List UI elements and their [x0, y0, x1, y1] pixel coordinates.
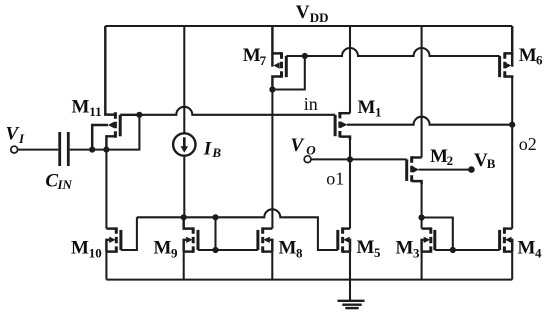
- wire M11 gate riser down to input node: [106, 115, 139, 150]
- svg-text:M: M: [154, 238, 172, 259]
- transistor M4 (NMOS): [500, 227, 513, 252]
- svg-text:O: O: [306, 143, 316, 158]
- wire M9 gate riser: [214, 217, 216, 250]
- wire M3 source to rail: [421, 252, 423, 280]
- svg-text:11: 11: [89, 104, 101, 119]
- wire bias mirror net with hop over M7-M8 line: [137, 209, 338, 250]
- svg-text:IN: IN: [57, 177, 73, 192]
- svg-text:M: M: [396, 238, 414, 259]
- transistor M3 (NMOS, diode-connected): [422, 227, 435, 252]
- svg-text:I: I: [18, 131, 25, 146]
- svg-text:4: 4: [535, 245, 542, 260]
- wire VDD riser to M1 drain: [349, 26, 351, 113]
- transistor M6 (PMOS): [500, 26, 513, 79]
- node dot M7 drain: [269, 86, 275, 92]
- transistor M10 (NMOS current sink): [106, 227, 121, 252]
- svg-text:M: M: [518, 238, 536, 259]
- wire M3 gate to M4 gate: [435, 249, 500, 251]
- wire M10 source to rail: [105, 252, 107, 280]
- ground: [338, 280, 365, 309]
- svg-text:10: 10: [89, 245, 102, 260]
- node dot M9 riser bottom: [212, 247, 218, 253]
- wire input node: terminal to capacitor: [18, 149, 59, 151]
- svg-text:o1: o1: [326, 169, 344, 189]
- wire VDD riser to IB: [183, 26, 185, 134]
- wire M2 source down to M3 drain: [421, 183, 423, 229]
- wire capacitor to M11 source node: [70, 149, 107, 151]
- svg-text:M: M: [72, 96, 90, 117]
- node dot M11 bulk at input: [89, 147, 95, 153]
- terminal VB (solid): [468, 166, 475, 173]
- wire M10 gate riser: [121, 217, 137, 250]
- svg-text:7: 7: [260, 53, 267, 68]
- svg-text:2: 2: [447, 153, 454, 168]
- svg-text:M: M: [430, 146, 448, 167]
- svg-text:B: B: [487, 156, 496, 171]
- wire M6 drain / o2 / M4 drain column: [511, 78, 513, 229]
- wire o1 net: VO terminal to M2 gate: [311, 158, 407, 160]
- wire M4 source to rail: [511, 252, 513, 280]
- svg-text:I: I: [203, 138, 212, 159]
- wire M1 source / M5 drain column: [349, 138, 351, 229]
- wire M9 gate to M8 gate: [198, 249, 258, 251]
- capacitor CIN: [60, 132, 69, 166]
- wire M5 source to rail: [349, 252, 351, 280]
- svg-text:V: V: [6, 123, 20, 144]
- svg-text:9: 9: [171, 245, 178, 260]
- wire o2 net: M1 bulk to o2 with hop over M2 drain: [347, 117, 512, 125]
- svg-text:V: V: [296, 2, 310, 23]
- svg-text:M: M: [243, 45, 261, 66]
- wire M7 drain down to M8 drain: [271, 90, 273, 229]
- node dot o1: [347, 156, 353, 162]
- svg-text:DD: DD: [310, 10, 329, 25]
- svg-text:M: M: [357, 237, 375, 258]
- transistor M9 (NMOS current sink): [184, 217, 198, 253]
- node dot M2 source / M3 drain: [419, 214, 425, 220]
- svg-text:6: 6: [536, 52, 543, 67]
- node dot M9 riser top: [212, 214, 218, 220]
- svg-text:3: 3: [413, 245, 420, 260]
- svg-text:C: C: [45, 170, 58, 191]
- svg-text:V: V: [291, 135, 305, 156]
- transistor M7 (PMOS, diode-connected): [272, 26, 286, 90]
- wire VDD rail: [105, 25, 512, 27]
- node dot M3 diode corner: [450, 247, 456, 253]
- svg-text:1: 1: [375, 105, 382, 120]
- terminal VO: [304, 156, 311, 163]
- wire M9 source to rail: [183, 252, 185, 280]
- node dot o2: [509, 122, 515, 128]
- wire node in: M11 gate to M1 gate with hop over IB: [139, 107, 335, 115]
- transistor M5 (NMOS current sink): [338, 227, 350, 252]
- wire VDD riser to M2 drain: [421, 26, 423, 158]
- svg-text:in: in: [304, 94, 318, 114]
- wire VB: M2 bulk to VB terminal: [419, 169, 472, 171]
- wire M11 source node down to M10 drain: [105, 150, 107, 229]
- transistor M1 (NMOS source follower): [335, 112, 350, 140]
- wire M3 diode loop: [422, 218, 453, 251]
- node dot M11 source at input: [103, 147, 109, 153]
- svg-text:M: M: [279, 238, 297, 259]
- wire gate net M7-M6 with hops: [286, 48, 499, 56]
- node dot M7 gate-drain tap: [302, 53, 308, 59]
- svg-text:o2: o2: [519, 134, 537, 154]
- node dot M11 gate: [136, 112, 142, 118]
- current source IB: [173, 133, 195, 155]
- transistor M2 (NMOS): [407, 156, 422, 184]
- terminal VI: [11, 146, 18, 153]
- svg-text:M: M: [71, 238, 89, 259]
- svg-text:M: M: [358, 97, 376, 118]
- transistor M8 (NMOS current sink): [258, 227, 272, 252]
- wire M7 diode loop: [272, 56, 304, 90]
- wire ground rail: [106, 279, 512, 281]
- svg-text:M: M: [519, 45, 537, 66]
- svg-text:8: 8: [296, 245, 303, 260]
- wire IB bottom stem: [183, 155, 185, 217]
- transistor M11 (NMOS, input device): [92, 26, 139, 150]
- wire M8 source to rail: [271, 252, 273, 280]
- svg-text:B: B: [211, 145, 221, 160]
- node dot IB bottom: [181, 214, 187, 220]
- svg-text:5: 5: [374, 245, 381, 260]
